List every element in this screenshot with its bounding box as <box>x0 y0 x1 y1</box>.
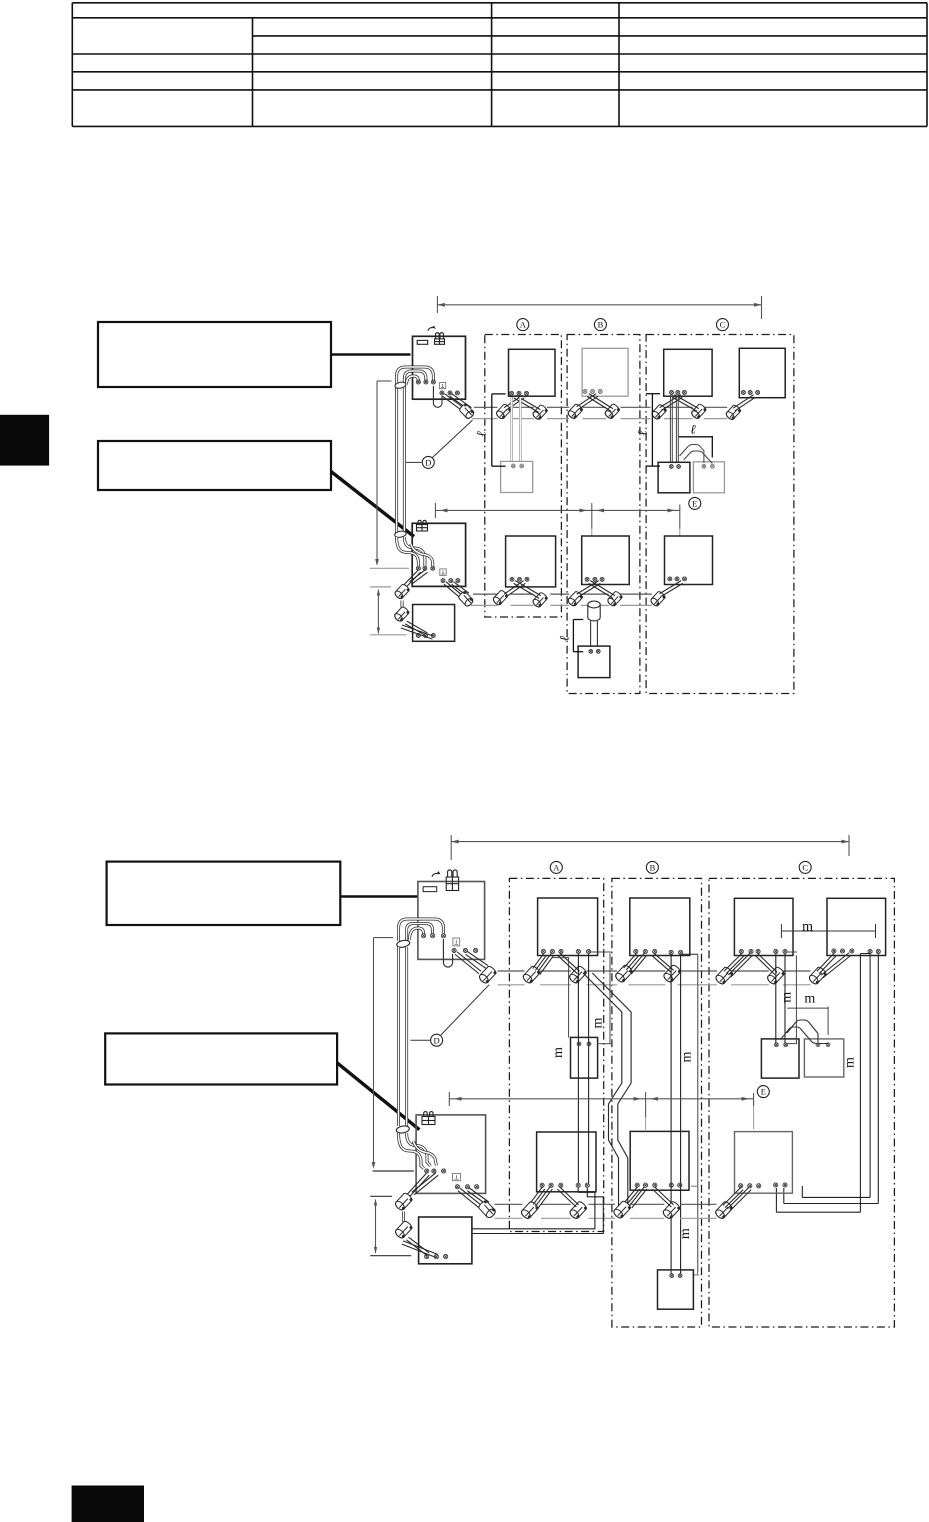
svg-text:m: m <box>842 1057 857 1068</box>
svg-text:m: m <box>591 1017 606 1028</box>
svg-text:ℓ: ℓ <box>635 430 650 436</box>
svg-text:C: C <box>720 320 726 330</box>
svg-text:ℓ: ℓ <box>557 635 572 641</box>
svg-text:D: D <box>434 1035 440 1045</box>
svg-text:B: B <box>650 862 656 872</box>
svg-text:A: A <box>520 320 527 330</box>
svg-text:E: E <box>761 1087 766 1097</box>
svg-text:m: m <box>678 1228 693 1239</box>
svg-text:E: E <box>692 498 697 508</box>
svg-text:m: m <box>680 1051 695 1062</box>
svg-text:m: m <box>551 1047 566 1058</box>
svg-text:m: m <box>802 920 813 935</box>
svg-text:ℓ: ℓ <box>690 422 696 437</box>
svg-text:B: B <box>598 320 604 330</box>
svg-text:m: m <box>804 991 815 1006</box>
svg-text:D: D <box>425 457 431 467</box>
svg-text:A: A <box>553 862 560 872</box>
svg-text:C: C <box>802 862 808 872</box>
svg-text:m: m <box>779 992 794 1003</box>
svg-text:ℓ: ℓ <box>474 431 489 437</box>
